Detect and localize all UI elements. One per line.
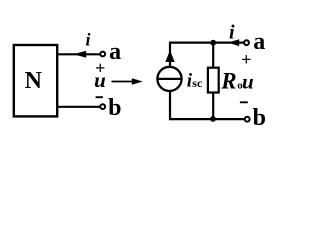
polarity − (right) bbox=[240, 101, 248, 103]
svg-text:N: N bbox=[25, 68, 43, 94]
current source Isc arrow (up) bbox=[165, 50, 174, 62]
current source Isc bbox=[157, 67, 181, 91]
svg-text:a: a bbox=[253, 29, 265, 55]
svg-text:R: R bbox=[220, 69, 236, 94]
svg-text:i: i bbox=[85, 29, 90, 49]
current arrow i (left, pointing left) bbox=[74, 51, 87, 58]
svg-text:sc: sc bbox=[192, 76, 203, 90]
polarity + (left) bbox=[95, 58, 105, 78]
terminal b (right) bbox=[245, 117, 250, 122]
voltage label u (left) bbox=[94, 68, 106, 92]
wire bottom lead from N to terminal b bbox=[57, 106, 100, 108]
label b (right) bbox=[253, 105, 266, 131]
resistor Ro bbox=[208, 68, 219, 93]
junction top bbox=[210, 40, 216, 46]
label i (left) bbox=[85, 29, 90, 49]
label a (left) bbox=[109, 39, 121, 65]
polarity − (left) bbox=[96, 96, 103, 98]
network N box bbox=[14, 45, 57, 116]
wire from current source bottom to bottom rail bbox=[170, 92, 244, 119]
svg-text:a: a bbox=[109, 39, 121, 65]
label b (left) bbox=[108, 95, 121, 121]
current arrow i (right, pointing left) bbox=[228, 39, 239, 46]
terminal a (left) bbox=[100, 52, 105, 57]
wire top rail right circuit bbox=[170, 43, 244, 66]
svg-text:i: i bbox=[229, 22, 235, 44]
wire resistor branch lower bbox=[212, 93, 214, 120]
polarity + (right) bbox=[241, 50, 251, 70]
svg-text:b: b bbox=[253, 105, 266, 131]
junction bottom bbox=[210, 116, 216, 122]
label i (right) bbox=[229, 22, 235, 44]
svg-text:+: + bbox=[241, 50, 251, 70]
terminal a (right) bbox=[244, 40, 249, 45]
svg-text:u: u bbox=[94, 68, 106, 92]
wire resistor branch upper bbox=[212, 43, 214, 68]
label isc bbox=[187, 70, 203, 91]
terminal b (left) bbox=[100, 104, 105, 109]
svg-text:u: u bbox=[242, 70, 254, 94]
voltage label u (right) bbox=[242, 70, 254, 94]
wire top lead from N to terminal a bbox=[57, 53, 100, 55]
label Ro bbox=[220, 69, 243, 94]
label a (right) bbox=[253, 29, 265, 55]
svg-text:b: b bbox=[108, 95, 121, 121]
equivalence arrow bbox=[112, 78, 143, 85]
